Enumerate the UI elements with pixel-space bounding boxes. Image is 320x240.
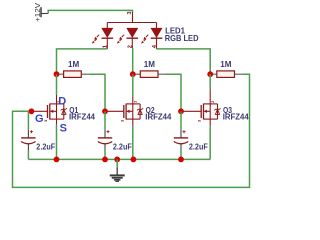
node Q1 source junction [54,157,60,163]
node Q2 gate junction [102,108,108,114]
svg-text:2: 2 [128,45,134,48]
LED1 right chip cathode lead pin 4 [156,38,158,49]
wire LED pin4 to Q3 drain node [157,49,211,74]
svg-text:1: 1 [103,45,109,48]
svg-text:+12V: +12V [33,3,42,22]
LED1 middle chip cathode lead pin 2 [131,38,133,48]
node C2 ground junction [102,157,108,163]
resistor R1 [57,71,90,78]
wire Q3 source to ground rail [209,126,211,159]
svg-text:D: D [58,96,66,108]
node Q2 source junction [131,157,137,163]
node Q2 drain junction [130,71,136,77]
resistor R2 [133,71,166,78]
svg-text:1M: 1M [144,60,155,69]
LED1 left chip cathode bar [102,37,114,39]
LED1 right chip anode stub [156,23,158,29]
LED1 left chip triangle [102,28,113,37]
svg-text:IRFZ44: IRFZ44 [223,113,249,122]
wire R3 feedback loop to Q1 gate node [13,74,250,187]
node Q1 gate junction [29,108,35,114]
capacitor C1 [21,111,35,159]
LED1 anode bus [107,22,156,24]
transistor Q1 IRFZ44 [34,95,67,125]
wire Q1 source to ground rail [56,125,58,160]
wire Q3 drain node to drain pin [209,74,211,89]
wire ground rail [28,158,210,160]
LED1 left chip anode stub [106,23,108,29]
wire R2 output to Q3 gate node [166,74,181,111]
wire +12V supply to LED1 anode [48,10,132,13]
node C3 ground junction [178,157,184,163]
wire Q2 source to ground rail [132,126,134,159]
transistor Q2 IRFZ44 [108,97,144,127]
supply +12V symbol [33,3,48,22]
wire R1 output to Q2 gate node [89,74,105,111]
capacitor C3 [174,111,188,159]
svg-text:IRFZ44: IRFZ44 [145,113,171,122]
svg-text:2.2uF: 2.2uF [113,142,132,151]
ground [110,167,125,181]
LED1 anode lead pin 3 [132,12,134,23]
svg-text:RGB LED: RGB LED [165,34,199,43]
LED1 middle chip triangle [127,28,138,37]
node ground symbol junction [114,157,120,163]
capacitor C2 [98,111,112,159]
node Q1 drain junction [54,71,60,77]
LED1 right chip cathode bar [151,37,163,39]
LED1 middle chip emission arrows [117,35,124,44]
svg-text:2.2uF: 2.2uF [189,142,208,151]
resistor R3 [210,71,242,78]
svg-text:3: 3 [127,11,133,14]
svg-text:S: S [60,123,67,135]
wire LED pin1 to Q1 drain node [57,49,108,74]
wire Q2 drain node to drain pin [132,74,134,96]
svg-text:1M: 1M [220,60,231,69]
transistor Q3 IRFZ44 [184,89,221,126]
LED1 right chip triangle [151,28,162,37]
node Q3 drain junction [207,71,213,77]
wire Q1 drain node to drain pin [56,74,58,95]
LED1 left chip cathode lead pin 1 [106,38,108,49]
wire ground node to ground symbol [116,159,118,167]
LED1 left chip emission arrows [92,35,99,44]
LED1 middle chip cathode bar [127,37,139,39]
svg-text:1M: 1M [68,60,79,69]
svg-text:G: G [35,113,44,125]
svg-text:IRFZ44: IRFZ44 [69,113,95,122]
LED1 right chip emission arrows [141,35,148,44]
node Q3 gate junction [178,108,184,114]
wire LED pin2 to Q2 drain node [132,48,134,74]
svg-text:2.2uF: 2.2uF [36,142,55,151]
